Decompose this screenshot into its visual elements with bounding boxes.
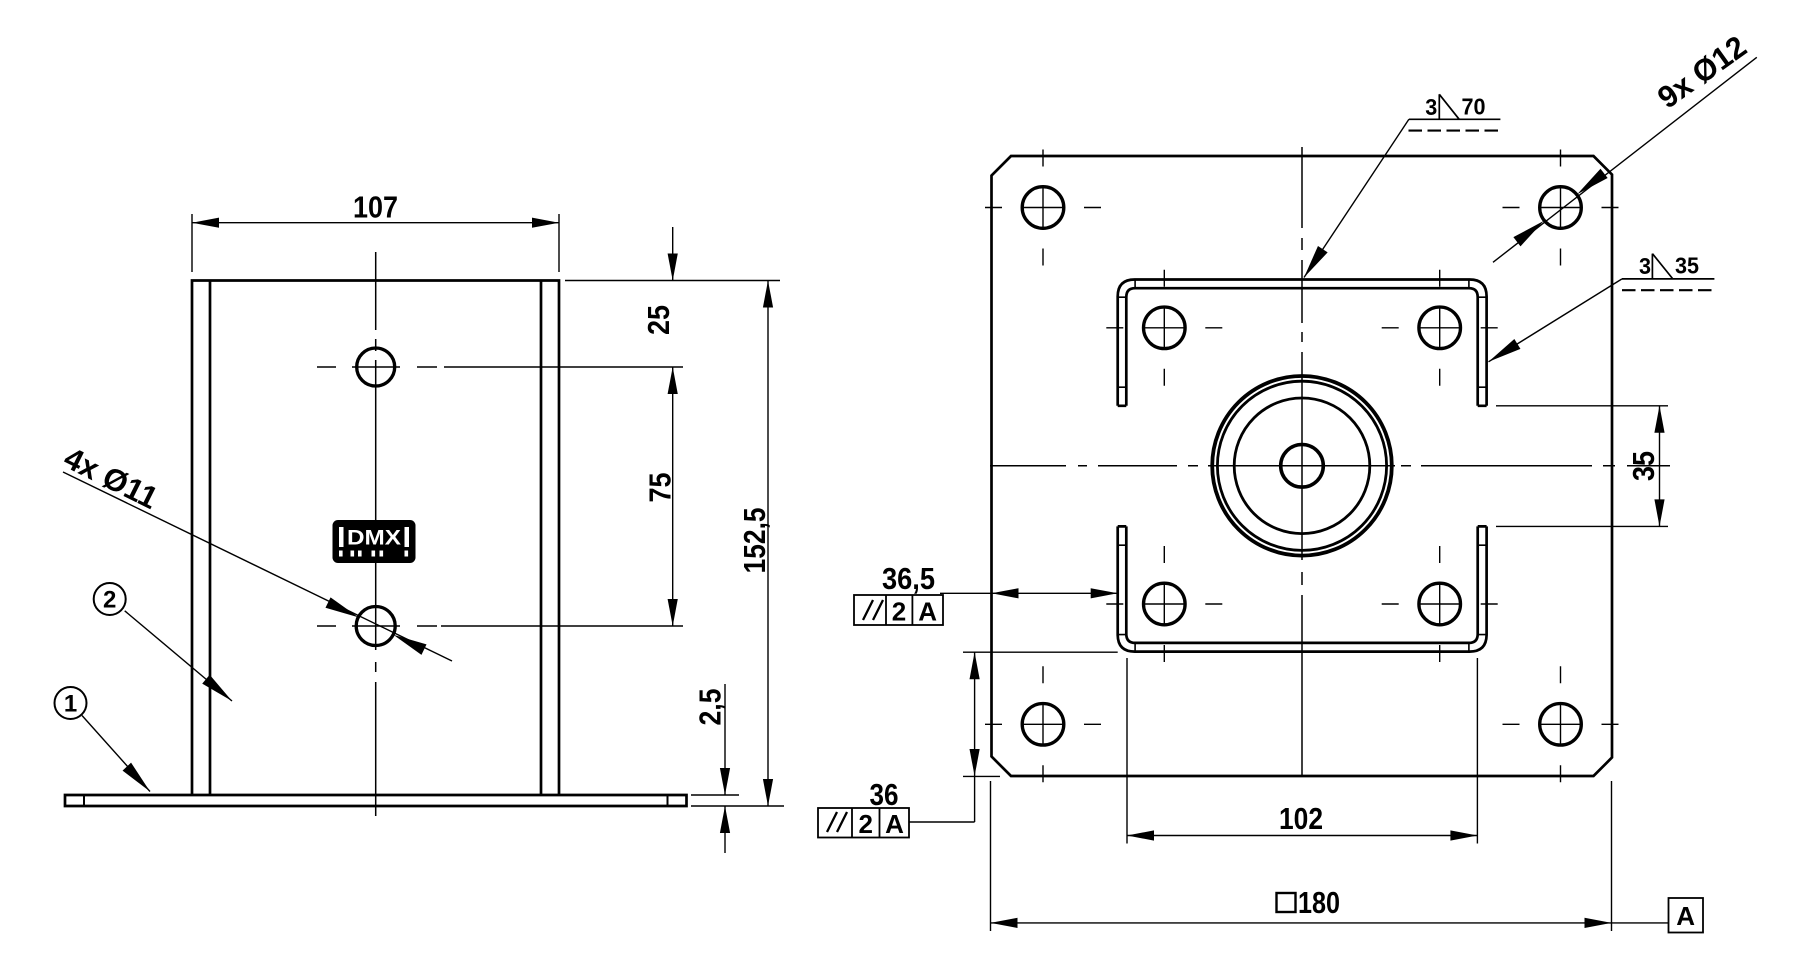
note 9x Ø12 leader xyxy=(1493,57,1757,262)
DMX logo plate xyxy=(333,520,416,563)
dimension 180: extension lines xyxy=(991,781,1612,931)
svg-text:A: A xyxy=(1676,901,1695,931)
leader of 3/35 to flange side face xyxy=(1489,279,1623,362)
right view: vertical centerline xyxy=(1301,147,1303,776)
svg-text:DMX: DMX xyxy=(347,527,401,550)
svg-text:2: 2 xyxy=(892,597,906,627)
extension line top edge right xyxy=(565,280,780,282)
left view: vertical centerline xyxy=(375,252,377,816)
surface finish symbol 3/35 xyxy=(1622,254,1714,279)
extension line top hole center xyxy=(444,366,683,368)
right view: base plate outline (180x180, chamfered corners) xyxy=(992,156,1613,776)
upper flange U: inner contour xyxy=(1126,288,1477,406)
lower flange U: inner contour xyxy=(1126,526,1477,643)
svg-text:36,5: 36,5 xyxy=(882,561,935,596)
left view: right flange inner edge xyxy=(540,281,543,796)
flange hole lower-right Ø12 xyxy=(1419,583,1461,625)
datum A box xyxy=(1669,898,1704,933)
leader from lower frame to dimension 36 xyxy=(909,821,975,823)
dimension 75 xyxy=(672,367,674,626)
extension tick plate bottom edge (36) xyxy=(963,775,1000,777)
dimension 152,5 xyxy=(767,281,769,807)
bottom hole Ø11 xyxy=(356,607,395,646)
svg-text:3: 3 xyxy=(1425,94,1437,120)
dimension 36,5 line xyxy=(940,592,1118,594)
dimension 102: extension lines xyxy=(1127,658,1477,844)
left view: left flange inner edge xyxy=(209,281,212,796)
dimension 36 line xyxy=(974,652,976,822)
extension line plate top xyxy=(691,794,739,796)
extension line plate bottom xyxy=(691,805,784,807)
base plate left edge line xyxy=(83,795,85,806)
dimension 180: dimension line xyxy=(991,922,1669,924)
svg-text:2,5: 2,5 xyxy=(693,689,728,726)
dimension 107: dimension line xyxy=(192,222,559,224)
svg-text:A: A xyxy=(918,597,937,627)
extension line bottom hole center xyxy=(441,625,683,627)
svg-text:152,5: 152,5 xyxy=(737,507,772,573)
upper flange U: outer contour xyxy=(1118,280,1487,406)
left view: channel body outline xyxy=(192,281,559,796)
svg-text:3: 3 xyxy=(1639,253,1651,279)
top hole centerline (horizontal) xyxy=(317,366,437,368)
dimension 25 xyxy=(672,227,674,281)
flange hole lower-left Ø12 xyxy=(1144,583,1186,625)
svg-text:35: 35 xyxy=(1675,253,1699,279)
parallelism frame lower (// 2 A) xyxy=(818,808,909,838)
dimension 35: dimension line xyxy=(1659,406,1661,527)
dimension 107: extension lines xyxy=(192,214,559,272)
dimension 102: dimension line xyxy=(1127,835,1477,837)
top hole Ø11 xyxy=(357,348,395,386)
note 4x Ø11 leader xyxy=(63,472,452,661)
dimension 35: extension lines xyxy=(1496,406,1668,527)
right view: horizontal centerline xyxy=(990,465,1670,467)
svg-text:25: 25 xyxy=(641,305,676,335)
corner hole bottom-left Ø12 xyxy=(1022,704,1064,746)
svg-text:35: 35 xyxy=(1626,451,1661,481)
lower flange U: outer contour xyxy=(1118,526,1487,651)
left view: base plate xyxy=(65,795,687,806)
svg-text:2: 2 xyxy=(103,587,116,614)
corner hole top-right Ø12 xyxy=(1540,187,1582,229)
svg-text:A: A xyxy=(885,809,904,839)
svg-text:102: 102 xyxy=(1279,801,1323,836)
svg-text:2: 2 xyxy=(858,809,872,839)
base plate right edge line xyxy=(667,795,669,806)
svg-text:36: 36 xyxy=(870,777,899,812)
svg-text:107: 107 xyxy=(353,190,398,225)
balloon 2 xyxy=(94,583,126,615)
upper flange bend ticks xyxy=(1118,280,1487,388)
leader of 3/70 to flange top face xyxy=(1304,119,1409,277)
balloon 2 leader xyxy=(125,611,232,701)
dimension 2,5 xyxy=(724,684,726,853)
svg-text:180: 180 xyxy=(1298,885,1340,920)
surface finish symbol 3/70 xyxy=(1409,94,1501,119)
bottom hole centerline (horizontal) xyxy=(317,625,437,627)
parallelism frame upper (// 2 A) xyxy=(854,595,943,625)
center hole Ø12 xyxy=(1281,445,1324,488)
svg-text:1: 1 xyxy=(64,691,77,718)
extension line flange outer face (36) xyxy=(963,651,1118,653)
corner hole bottom-right Ø12 xyxy=(1540,704,1582,746)
balloon 1 xyxy=(55,687,87,719)
corner hole top-left Ø12 xyxy=(1022,187,1064,229)
flange hole upper-left Ø12 xyxy=(1144,307,1186,349)
lower flange bend ticks xyxy=(1118,545,1487,651)
svg-text:75: 75 xyxy=(643,473,678,503)
lower flange tab end caps xyxy=(1118,525,1487,528)
upper flange tab end caps xyxy=(1118,404,1487,407)
balloon 1 leader xyxy=(82,716,150,792)
square symbol of 180 xyxy=(1277,893,1296,912)
svg-text:70: 70 xyxy=(1462,94,1486,120)
flange hole upper-right Ø12 xyxy=(1419,307,1461,349)
central boss circles xyxy=(1212,376,1392,556)
